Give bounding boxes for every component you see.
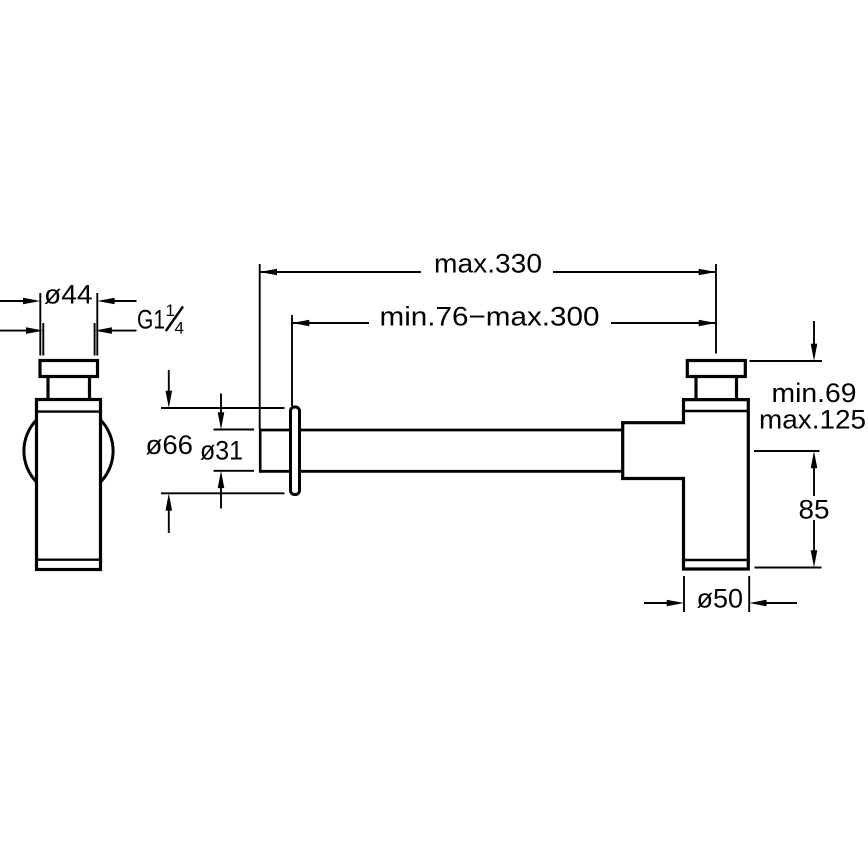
- dimension G1 1/4 extension lines: [43, 323, 94, 356]
- dimension G1 1/4 arrows: [0, 327, 137, 334]
- svg-text:ø50: ø50: [697, 584, 744, 614]
- trap body top cap line (front view): [37, 410, 101, 412]
- escutcheon wall flange circle (front view): [24, 406, 113, 495]
- trap body bottom cap line (front view): [37, 559, 101, 561]
- neck (side view): [696, 377, 737, 400]
- svg-text:85: 85: [799, 495, 830, 525]
- top flange nut (side view): [687, 361, 745, 377]
- svg-text:G1: G1: [137, 305, 165, 335]
- trap body with inlet connector (side view): [623, 400, 749, 569]
- dimension extension line at escutcheon face: [291, 315, 293, 406]
- dimension o31 extension lines: [214, 430, 255, 471]
- escutcheon wall flange (side view): [291, 407, 300, 495]
- dimension max.330 extension line at pipe end: [259, 264, 261, 429]
- svg-text:ø44: ø44: [44, 280, 93, 310]
- neck (front view): [48, 377, 90, 400]
- dimension o31 arrows: [218, 394, 225, 509]
- top flange nut (front view): [40, 361, 98, 377]
- svg-text:ø31: ø31: [200, 436, 243, 466]
- dimension o66 arrows: [166, 370, 173, 533]
- dimension o44 arrows: [0, 298, 137, 305]
- dimension line min.76-max.300: [292, 320, 716, 327]
- svg-text:min.69: min.69: [772, 378, 857, 408]
- svg-text:max.330: max.330: [434, 249, 542, 279]
- dimension extension line at trap axis: [715, 264, 717, 354]
- dimension line max.330: [260, 269, 716, 276]
- svg-text:min.76−max.300: min.76−max.300: [380, 302, 600, 332]
- svg-text:1: 1: [166, 301, 175, 320]
- dimension o66 extension lines: [161, 408, 285, 493]
- trap body top cap line (side view): [684, 410, 749, 412]
- svg-text:ø66: ø66: [146, 430, 194, 460]
- trap body bottom cap line (side view): [684, 559, 749, 561]
- dimension o50 arrows: [644, 600, 797, 607]
- dimension 85 extension lines: [754, 451, 822, 568]
- dimension min.69 arrow: [811, 321, 818, 361]
- dimension 85 line and arrows: [811, 451, 818, 568]
- outlet pipe (side view): [260, 429, 623, 473]
- dimension o50 extension lines: [684, 576, 749, 612]
- dimension min.69 max.125 extension line: [750, 360, 823, 362]
- svg-text:4: 4: [175, 319, 184, 338]
- dimension o44 extension lines: [40, 293, 97, 356]
- svg-text:max.125: max.125: [759, 405, 866, 435]
- trap body (front view): [37, 400, 101, 570]
- label G1 1/4: [137, 301, 184, 338]
